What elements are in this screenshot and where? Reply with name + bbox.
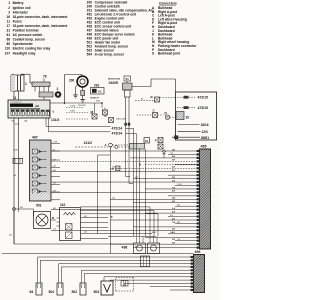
wire to 495 pin 14 bbox=[168, 195, 200, 197]
wire 472/14 bbox=[45, 118, 47, 126]
svg-text:495: 495 bbox=[201, 145, 207, 149]
svg-text:6-GN: 6-GN bbox=[13, 149, 18, 151]
wire relay exit 2 bbox=[81, 222, 109, 224]
svg-text:7-GR: 7-GR bbox=[53, 141, 58, 143]
wire to heater fan bbox=[15, 208, 33, 210]
wire to 495 pin 28 bbox=[110, 243, 200, 245]
svg-text:3: 3 bbox=[8, 10, 10, 14]
wire relay exit 4 bbox=[81, 233, 109, 235]
wire to 495 pin 15 bbox=[110, 198, 200, 200]
wire relay exit 1 bbox=[81, 217, 109, 219]
inline connector 131 bbox=[13, 158, 23, 163]
svg-text:498: 498 bbox=[122, 245, 128, 249]
svg-text:18/16: 18/16 bbox=[201, 123, 209, 127]
battery 1 bbox=[11, 75, 24, 91]
svg-text:N: N bbox=[139, 163, 141, 167]
svg-text:In-car temp. sensor: In-car temp. sensor bbox=[95, 53, 125, 57]
ground compressor branch bbox=[76, 85, 78, 88]
wire corner 1 bbox=[81, 206, 151, 208]
accessory connector bbox=[121, 281, 128, 287]
svg-text:Alternator: Alternator bbox=[13, 10, 29, 14]
wire relay exit 5 bbox=[81, 237, 109, 239]
svg-text:Bulkhead joint: Bulkhead joint bbox=[158, 52, 181, 56]
wire sensor lead down 1 bbox=[125, 130, 127, 177]
dashed accessory box bbox=[116, 277, 134, 279]
svg-text:A: A bbox=[112, 167, 114, 171]
wire A-post vertical bbox=[110, 147, 112, 254]
svg-text:S: S bbox=[152, 52, 154, 56]
svg-text:3-R: 3-R bbox=[172, 160, 176, 162]
wire to 495 pin 13 bbox=[51, 191, 200, 193]
svg-text:Position terminal: Position terminal bbox=[13, 29, 39, 33]
svg-text:107: 107 bbox=[5, 51, 11, 55]
wire sensor leads bbox=[58, 264, 60, 283]
wire to 496 pin 7 bbox=[104, 276, 194, 278]
svg-text:2-G: 2-G bbox=[53, 229, 57, 231]
wire 18/16 bbox=[178, 124, 200, 126]
wire to 495 pin 19 bbox=[145, 212, 200, 214]
node junction M bbox=[101, 102, 103, 104]
svg-text:291: 291 bbox=[94, 83, 100, 87]
svg-text:10A 0.5GN: 10A 0.5GN bbox=[116, 118, 126, 121]
svg-text:260/9: 260/9 bbox=[109, 81, 119, 85]
wire to 495 pin 25 bbox=[168, 233, 200, 235]
svg-text:6-B: 6-B bbox=[20, 207, 24, 209]
svg-text:10: 10 bbox=[186, 116, 190, 120]
wire 497 exit 8 bbox=[51, 199, 60, 201]
svg-text:200: 200 bbox=[69, 79, 75, 83]
svg-text:KON: KON bbox=[96, 101, 101, 103]
wire to 495 pin 22 bbox=[175, 222, 200, 224]
svg-text:31: 31 bbox=[6, 29, 10, 33]
wire 497 exit 6 bbox=[51, 183, 60, 185]
wire 497 exit 5 bbox=[51, 176, 60, 178]
wire 12/3 bbox=[178, 130, 201, 132]
wire to 496 pin 2 bbox=[40, 259, 193, 261]
wire to 496 pin 11 bbox=[170, 289, 194, 291]
8-pole connector row bbox=[130, 144, 145, 150]
wire to 495 pin 18 bbox=[51, 209, 200, 211]
wire sensor to control unit bbox=[132, 86, 151, 88]
wire to 495 pin 12 bbox=[145, 188, 200, 190]
svg-text:DR KON: DR KON bbox=[78, 105, 86, 107]
wire to 495 pin 6 bbox=[110, 167, 200, 169]
svg-text:AC: AC bbox=[98, 90, 102, 93]
svg-text:B: B bbox=[151, 95, 154, 99]
wire center drop bbox=[97, 155, 99, 234]
wire 497 exit 1 bbox=[51, 142, 60, 144]
wire C to unit bbox=[158, 114, 164, 116]
svg-text:85: 85 bbox=[6, 42, 10, 46]
svg-text:11: 11 bbox=[13, 96, 17, 100]
svg-text:12/3: 12/3 bbox=[202, 130, 208, 134]
svg-text:0.5GN: 0.5GN bbox=[70, 106, 76, 108]
wire dashed feed 1 bbox=[66, 107, 84, 109]
svg-text:84: 84 bbox=[141, 99, 143, 101]
wire to 495 pin 9 bbox=[133, 178, 200, 180]
wire sensor leads bbox=[81, 270, 83, 283]
legend column 3 : connectors key bbox=[152, 1, 197, 55]
svg-text:F: F bbox=[155, 138, 157, 142]
wire dashed feed 3 bbox=[66, 118, 88, 120]
svg-text:496: 496 bbox=[195, 250, 201, 254]
wire bottom feed bbox=[14, 243, 134, 245]
svg-text:2: 2 bbox=[57, 87, 59, 91]
svg-text:3-G: 3-G bbox=[170, 215, 174, 217]
wire dashed to L bbox=[101, 103, 103, 107]
svg-text:472/14: 472/14 bbox=[112, 126, 123, 130]
wire battery positive feed bbox=[22, 73, 31, 75]
wire to 496 pin 9 bbox=[125, 282, 194, 284]
wire 497 exit 4 bbox=[51, 167, 60, 169]
wire to 495 pin 26 bbox=[145, 236, 200, 238]
wire shielded row bbox=[75, 146, 115, 148]
svg-text:1: 1 bbox=[8, 1, 10, 5]
wire to 495 pin 20 bbox=[168, 216, 200, 218]
wire to 495 pin 23 bbox=[133, 226, 200, 228]
wire 473/14 bbox=[48, 118, 50, 132]
svg-text:131/3: 131/3 bbox=[51, 118, 59, 122]
legend column 1 : component key bbox=[5, 1, 69, 55]
svg-text:5-R: 5-R bbox=[53, 182, 57, 184]
wire to 495 pin 11 bbox=[175, 185, 200, 187]
svg-text:A: A bbox=[105, 143, 108, 147]
svg-text:11: 11 bbox=[7, 19, 11, 23]
svg-text:Fuses: Fuses bbox=[13, 19, 22, 23]
svg-text:BOSCH: BOSCH bbox=[91, 97, 99, 99]
svg-text:AC pressure switch: AC pressure switch bbox=[13, 33, 43, 37]
svg-text:7-GR: 7-GR bbox=[177, 184, 182, 186]
wire 473/15 bbox=[177, 107, 183, 109]
wire accessory lead bbox=[124, 283, 126, 286]
svg-text:85/81: 85/81 bbox=[201, 136, 209, 140]
svg-text:Speedometer: Speedometer bbox=[13, 42, 34, 46]
svg-text:131/2: 131/2 bbox=[84, 141, 93, 145]
svg-text:B-M: B-M bbox=[152, 232, 156, 234]
wire to 496 pin 4 bbox=[61, 266, 193, 268]
wire bottom bus 0 bbox=[2, 253, 194, 255]
wire to 496 pin 8 bbox=[110, 279, 194, 281]
svg-text:6-G: 6-G bbox=[172, 232, 176, 234]
svg-text:25A: 25A bbox=[24, 119, 28, 122]
ECC control unit 492 outline bbox=[176, 92, 217, 140]
wire dashed feed 2 bbox=[66, 112, 88, 114]
wire to 496 pin 1 bbox=[38, 256, 194, 258]
wire left bus 2 bbox=[17, 118, 19, 209]
wire to 495 pin 3 bbox=[130, 157, 200, 159]
svg-text:68: 68 bbox=[6, 38, 10, 42]
wire to 495 pin 16 bbox=[133, 202, 200, 204]
wire fuse box to junction bbox=[50, 102, 102, 104]
svg-text:6-GN: 6-GN bbox=[15, 123, 20, 125]
svg-text:18-pole connector, dash, instr: 18-pole connector, dash, instrument bbox=[13, 15, 69, 19]
svg-text:502: 502 bbox=[72, 290, 78, 294]
svg-text:110: 110 bbox=[60, 203, 65, 207]
wire to 495 pin 4 bbox=[51, 160, 200, 162]
wire to 495 pin 5 bbox=[175, 164, 200, 166]
wire harness vertical 1 bbox=[133, 128, 135, 236]
wire to 496 pin 5 bbox=[82, 269, 194, 271]
wire dashed to connector B bbox=[135, 100, 155, 102]
svg-text:C: C bbox=[153, 108, 156, 112]
svg-text:Coolant temp. sensor: Coolant temp. sensor bbox=[13, 38, 46, 42]
wire 497 exit 3 bbox=[51, 159, 60, 161]
wire to 495 pin 21 bbox=[110, 219, 200, 221]
wire to 496 pin 3 bbox=[59, 263, 194, 265]
wire C from harness bbox=[137, 114, 153, 116]
legend column 2 : component key bbox=[87, 1, 154, 57]
svg-text:1 2 3 4 5 6 7 8: 1 2 3 4 5 6 7 8 bbox=[11, 102, 22, 104]
ground pressure switch bbox=[82, 96, 84, 100]
wire to 495 pin 17 bbox=[175, 205, 200, 207]
wire to 496 pin 10 bbox=[150, 286, 194, 288]
wire to 495 pin 27 bbox=[175, 240, 200, 242]
svg-text:503: 503 bbox=[94, 290, 100, 294]
wire 503 leads bbox=[103, 277, 105, 281]
connector H 16 bbox=[144, 138, 150, 144]
wire left bus 1 bbox=[13, 118, 15, 244]
svg-text:3-G: 3-G bbox=[172, 208, 176, 210]
node junction heater feed bbox=[13, 208, 16, 211]
svg-text:3-R: 3-R bbox=[53, 166, 57, 168]
wire to 495 pin 24 bbox=[51, 229, 200, 231]
coolant temp. sensor 51 bbox=[124, 76, 131, 81]
svg-text:4-R: 4-R bbox=[9, 234, 13, 236]
wire to 496 pin 6 bbox=[84, 273, 193, 275]
svg-text:Ignition coil: Ignition coil bbox=[13, 6, 31, 10]
svg-text:16: 16 bbox=[6, 15, 10, 19]
wire sensor leads bbox=[37, 257, 39, 283]
wire to 495 pin 10 bbox=[51, 181, 200, 183]
node junction fuse feed bbox=[64, 102, 66, 104]
wire compressor to pressure switch bbox=[82, 87, 84, 91]
wire battery to fuse box bbox=[13, 91, 15, 100]
inline connector bottom bbox=[141, 256, 150, 267]
wire corner 2 bbox=[81, 209, 155, 211]
svg-text:84: 84 bbox=[30, 290, 34, 294]
AC pressure switch 61 bbox=[81, 91, 85, 96]
wire relay exit 3 bbox=[81, 226, 109, 228]
svg-text:4-G: 4-G bbox=[172, 217, 176, 220]
wire 85/81 bbox=[172, 136, 200, 138]
svg-text:51: 51 bbox=[126, 77, 130, 81]
svg-text:61: 61 bbox=[6, 33, 10, 37]
wire corner 3 bbox=[81, 213, 159, 215]
svg-text:15A: 15A bbox=[11, 119, 15, 122]
wire connector B to ECC unit bbox=[160, 97, 176, 99]
wire to 495 pin 2 bbox=[168, 153, 200, 155]
svg-text:2-G: 2-G bbox=[172, 170, 176, 172]
svg-text:473/14: 473/14 bbox=[112, 132, 123, 136]
wire to 495 pin 29 bbox=[133, 247, 200, 249]
svg-text:78: 78 bbox=[43, 75, 47, 79]
svg-text:Headlight relay: Headlight relay bbox=[13, 51, 36, 55]
svg-text:110: 110 bbox=[5, 47, 10, 51]
wire servo feed lines bbox=[108, 233, 152, 235]
wire to 495 pin 7 bbox=[51, 171, 200, 173]
wire to 495 pin 8 bbox=[168, 174, 200, 176]
svg-text:Connectors: Connectors bbox=[159, 1, 177, 5]
wire 30-feed horizontal bbox=[65, 74, 83, 76]
svg-text:472/15: 472/15 bbox=[198, 96, 208, 100]
svg-text:504: 504 bbox=[87, 53, 93, 57]
wire harness vertical 4 bbox=[145, 149, 147, 236]
svg-text:0.5RD: 0.5RD bbox=[70, 111, 76, 113]
svg-text:M: M bbox=[52, 217, 54, 220]
svg-text:504: 504 bbox=[49, 290, 55, 294]
wire to 495 pin 1 bbox=[51, 150, 200, 152]
wire harness vertical 3 bbox=[139, 149, 141, 236]
svg-text:6-R: 6-R bbox=[13, 175, 17, 177]
svg-text:Electric cooling fan relay: Electric cooling fan relay bbox=[13, 47, 51, 51]
relay 10 bbox=[176, 112, 184, 120]
svg-text:2: 2 bbox=[8, 6, 10, 10]
svg-text:497: 497 bbox=[32, 136, 38, 140]
svg-text:Battery: Battery bbox=[13, 1, 24, 5]
svg-text:1: 1 bbox=[25, 82, 27, 86]
svg-text:+30: +30 bbox=[35, 104, 40, 108]
wire harness vertical 2 bbox=[136, 134, 138, 237]
wire sensor lead down 2 bbox=[128, 130, 130, 184]
svg-text:*): *) bbox=[52, 110, 54, 114]
svg-text:501: 501 bbox=[36, 203, 42, 207]
diode symbol bbox=[163, 149, 165, 151]
wire 497 exit 7 bbox=[51, 191, 60, 193]
wire 472/15 bbox=[177, 96, 183, 98]
wire sensor leads ticks bbox=[125, 123, 127, 125]
svg-text:F: F bbox=[111, 215, 113, 219]
svg-text:473/15: 473/15 bbox=[198, 106, 208, 110]
wire 497 exit 2 bbox=[51, 150, 60, 152]
svg-text:16: 16 bbox=[145, 139, 148, 143]
svg-text:17: 17 bbox=[6, 24, 10, 28]
svg-text:15-pole connector, dash, instr: 15-pole connector, dash, instrument bbox=[13, 24, 69, 28]
